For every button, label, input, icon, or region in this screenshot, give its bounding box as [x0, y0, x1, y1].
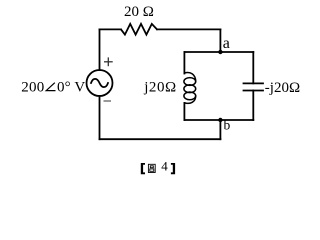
caption character 圖 (figure)	[148, 164, 155, 172]
wire: bottom horizontal return to source	[100, 138, 221, 140]
wire: node b stub down	[219, 120, 221, 139]
svg-text:0° V: 0° V	[57, 80, 85, 96]
svg-text:4: 4	[161, 159, 168, 174]
source sine symbol	[91, 79, 108, 87]
source polarity plus sign	[104, 57, 113, 66]
svg-text:20 Ω: 20 Ω	[124, 4, 154, 20]
capacitor C -j20Ω bottom plate	[244, 90, 264, 92]
svg-text:j20Ω: j20Ω	[143, 80, 177, 96]
wire: top rail of parallel box through node a	[184, 51, 253, 53]
caption left lenticular bracket	[141, 163, 145, 174]
wire: right branch lower segment	[252, 91, 254, 121]
resistor R 20Ω zigzag	[121, 24, 157, 35]
wire: left branch lower segment	[183, 103, 185, 120]
svg-text:200: 200	[21, 80, 44, 96]
svg-text:-j20Ω: -j20Ω	[265, 80, 300, 96]
wire: bottom rail of parallel box through node b	[184, 119, 253, 121]
inductor L j20Ω coil	[184, 73, 196, 104]
capacitor C -j20Ω top plate	[244, 82, 264, 84]
svg-text:a: a	[223, 35, 230, 52]
wire: right vertical drop into node a	[219, 29, 221, 52]
wire: left vertical above source	[99, 29, 101, 70]
wire: left branch upper segment (inductor branch)	[183, 52, 185, 74]
source V1 circle 200∠0° V	[87, 70, 113, 96]
caption right lenticular bracket	[171, 163, 175, 174]
svg-text:b: b	[224, 117, 231, 132]
source polarity minus sign	[104, 100, 112, 102]
wire: right branch upper segment (capacitor branch)	[252, 52, 254, 83]
wire: top horizontal from resistor to right corner	[157, 28, 220, 30]
node b junction dot	[218, 118, 222, 122]
wire: top-left horizontal from source top corner to resistor	[100, 28, 122, 30]
wire: left vertical below source	[99, 96, 101, 139]
angle symbol of phasor	[46, 83, 55, 91]
node a junction dot	[218, 50, 222, 54]
